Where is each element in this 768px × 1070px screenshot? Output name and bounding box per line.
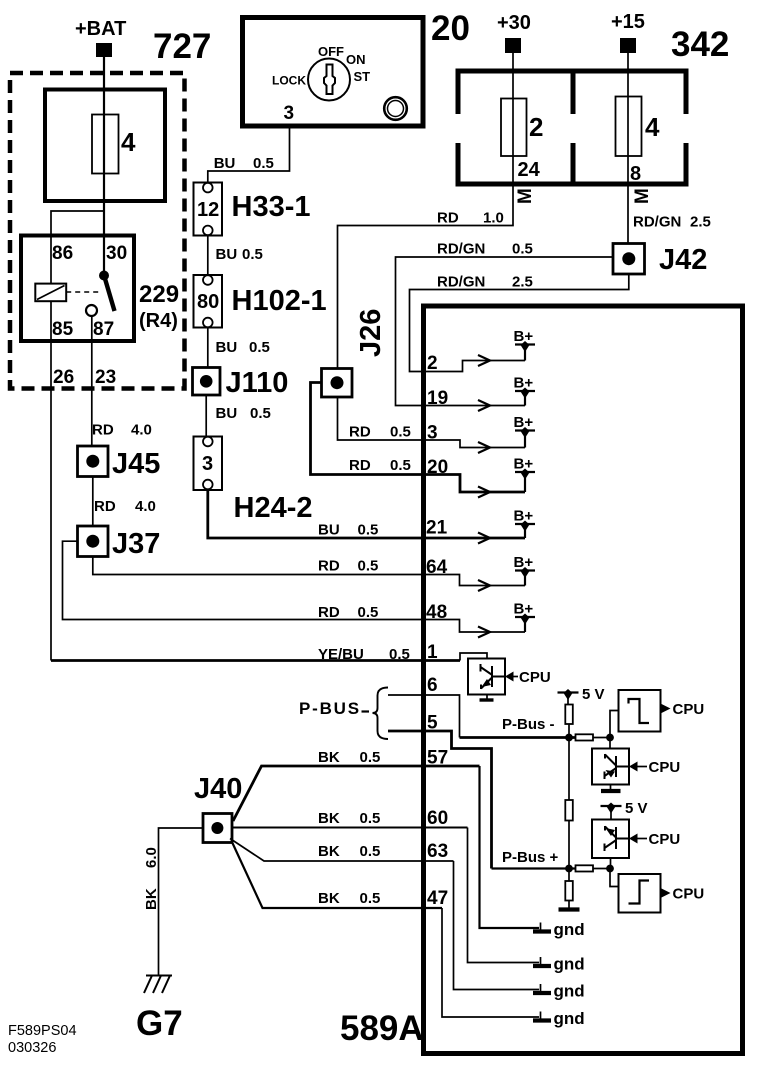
svg-text:B+: B+: [514, 375, 534, 392]
svg-text:J40: J40: [194, 773, 242, 805]
svg-text:CPU: CPU: [673, 886, 705, 903]
svg-text:57: 57: [427, 748, 448, 769]
wire relay 87 pin 23 down to J45: [91, 316, 93, 447]
gnd terminal 3: [533, 982, 585, 1001]
svg-text:B+: B+: [514, 328, 534, 345]
wire J40 to pin 57 (BK 0.5): [233, 766, 480, 821]
wire J45 to J37 (RD 4.0): [92, 477, 94, 528]
svg-text:ST: ST: [354, 69, 371, 84]
opto-isolator U1 symbol: [481, 664, 506, 689]
opto U4 CPU arrow: [629, 831, 680, 848]
opto-isolator U1 box: [468, 659, 505, 695]
svg-text:2.5: 2.5: [512, 274, 533, 291]
B+ terminal pin 21: [514, 508, 536, 539]
svg-text:0.5: 0.5: [360, 749, 381, 766]
svg-text:J42: J42: [659, 244, 707, 276]
opto-isolator U3 symbol: [605, 754, 630, 779]
svg-text:0.5: 0.5: [358, 604, 379, 621]
relay contact lever: [105, 277, 115, 311]
svg-text:RD: RD: [94, 498, 116, 515]
wire junction to schmitt U5: [610, 869, 619, 887]
svg-text:B+: B+: [514, 456, 534, 473]
splice J45 dot: [86, 455, 99, 468]
wire relay 26 to pin 1 (YE/BU 0.5): [51, 659, 460, 662]
svg-text:5 V: 5 V: [582, 686, 605, 703]
wire label BK 0.5 (pin 57): [318, 749, 380, 766]
B+ terminal pin 48: [514, 601, 536, 633]
svg-text:B+: B+: [514, 601, 534, 618]
pin 48 arrow: [478, 627, 490, 638]
svg-text:+BAT: +BAT: [75, 18, 126, 40]
wire pin 5 to P-Bus plus: [388, 731, 492, 869]
wire opto U4 to P-Bus plus junction: [610, 858, 612, 869]
ignition auxiliary ring: [384, 97, 407, 120]
wire label RD 0.5 (pin 64): [318, 558, 378, 575]
svg-text:0.5: 0.5: [358, 522, 379, 539]
svg-text:CPU: CPU: [649, 831, 681, 848]
svg-text:B+: B+: [514, 414, 534, 431]
svg-text:H24-2: H24-2: [234, 492, 313, 524]
gnd terminal 2: [533, 955, 585, 974]
svg-text:87: 87: [93, 319, 114, 340]
pin 19 arrow: [478, 400, 490, 411]
svg-text:RD: RD: [349, 424, 371, 441]
svg-text:+30: +30: [497, 12, 531, 34]
svg-text:RD: RD: [318, 604, 340, 621]
svg-text:030326: 030326: [8, 1040, 56, 1056]
svg-text:0.5: 0.5: [360, 810, 381, 827]
splice J42 box: [613, 244, 645, 275]
svg-text:0.5: 0.5: [253, 155, 274, 172]
svg-text:0.5: 0.5: [358, 558, 379, 575]
wire label BU 0.5: [216, 405, 271, 422]
svg-text:2: 2: [529, 112, 543, 142]
opto U3 CPU arrow: [629, 759, 680, 776]
wire J40 to ground G7 (BK 6.0): [159, 828, 204, 975]
resistor R4 (P-Bus termination lower): [576, 865, 594, 871]
wire P-Bus plus rail: [492, 867, 576, 869]
svg-text:1.0: 1.0: [483, 210, 504, 227]
wire R4 to junction right: [593, 868, 610, 870]
svg-text:23: 23: [95, 367, 116, 388]
B+ terminal pin 2: [514, 328, 536, 361]
svg-text:OFF: OFF: [318, 44, 344, 59]
svg-text:0.5: 0.5: [360, 843, 381, 860]
wire label BK 0.5 (pin 47): [318, 890, 380, 907]
svg-text:3: 3: [427, 423, 438, 444]
opto-isolator U4 symbol: [605, 826, 630, 851]
wire J42 to pin 19 (RD/GN 0.5): [396, 257, 614, 406]
svg-text:+15: +15: [611, 11, 645, 33]
ignition key cylinder: [308, 59, 350, 101]
splice J26 dot: [331, 376, 344, 389]
5V terminal (lower): [601, 800, 648, 820]
relay contact pivot: [99, 271, 109, 281]
wire +BAT to relay pin 30: [103, 57, 105, 271]
wire J40 to pin 47 (BK 0.5): [232, 842, 442, 908]
svg-text:5 V: 5 V: [625, 800, 648, 817]
junction P-Bus minus left: [565, 734, 573, 742]
svg-text:J37: J37: [112, 528, 160, 560]
wire label YE/BU 0.5: [318, 646, 410, 663]
junction P-Bus plus left: [565, 865, 573, 873]
svg-text:85: 85: [52, 319, 74, 340]
connector H33-1 top pin circle: [203, 183, 213, 193]
wire J42 to pin 2 (RD/GN 2.5): [410, 274, 629, 372]
svg-text:CPU: CPU: [519, 669, 551, 686]
svg-text:0.5: 0.5: [390, 424, 411, 441]
svg-text:0.5: 0.5: [242, 246, 263, 263]
svg-text:6.0: 6.0: [143, 847, 160, 868]
svg-text:gnd: gnd: [554, 982, 585, 1001]
fusebox 342 outline (dashed verticals): [456, 69, 689, 187]
connector H102-1 bottom pin circle: [203, 318, 213, 328]
svg-text:727: 727: [153, 27, 211, 66]
wire junction to opto U3: [609, 738, 611, 750]
pin 21 arrow: [478, 533, 490, 544]
svg-text:RD/GN: RD/GN: [437, 241, 485, 258]
gnd terminal 1: [533, 920, 585, 939]
P-BUS brace: [373, 688, 389, 740]
relay coil: [35, 284, 66, 302]
splice J37 dot: [86, 535, 99, 548]
wire label BU 0.5 (pin 21): [318, 522, 378, 539]
svg-text:229: 229: [139, 281, 179, 308]
svg-text:80: 80: [197, 291, 219, 313]
svg-text:J26: J26: [355, 309, 387, 357]
wire +30 through fuse 2 to RD 1.0: [338, 53, 514, 369]
pin 2 arrow: [478, 355, 490, 366]
svg-text:589A: 589A: [340, 1009, 424, 1048]
wire pin 1 to opto U1: [460, 653, 487, 661]
svg-text:H102-1: H102-1: [232, 285, 327, 317]
wire J37 to pin 48 (RD 0.5): [63, 541, 526, 632]
5V terminal (upper): [558, 686, 605, 705]
gnd terminal 4: [533, 1009, 585, 1028]
svg-text:0.5: 0.5: [389, 646, 410, 663]
svg-text:86: 86: [52, 243, 73, 264]
svg-text:48: 48: [426, 602, 447, 623]
wire J40 to pin 60 (BK 0.5): [232, 827, 468, 829]
svg-text:64: 64: [426, 557, 448, 578]
svg-text:20: 20: [427, 457, 448, 478]
opto-isolator U4 box: [592, 820, 629, 859]
wire label RD 4.0: [94, 498, 156, 515]
svg-text:CPU: CPU: [673, 701, 705, 718]
svg-text:RD/GN: RD/GN: [437, 274, 485, 291]
schmitt U2 CPU arrow: [661, 701, 705, 718]
connector H24-2 top pin circle: [203, 437, 213, 447]
connector H102-1 top pin circle: [203, 275, 213, 285]
wire H24-2 to pin 21 (BU 0.5): [208, 490, 525, 539]
splice J110 dot: [200, 375, 213, 388]
svg-text:gnd: gnd: [554, 920, 585, 939]
wire label BU 0.5: [216, 246, 263, 263]
svg-text:0.5: 0.5: [512, 241, 533, 258]
svg-text:gnd: gnd: [554, 955, 585, 974]
fuse holder box: [45, 90, 165, 202]
svg-text:P-BUS: P-BUS: [299, 699, 361, 718]
svg-text:LOCK: LOCK: [272, 74, 306, 88]
svg-text:gnd: gnd: [554, 1009, 585, 1028]
B+ terminal pin 19: [514, 375, 536, 406]
junction P-Bus plus right: [606, 865, 614, 873]
svg-text:24: 24: [518, 159, 541, 181]
wire label RD 0.5 (pin 3): [349, 424, 411, 441]
connector H33-1 box: [194, 183, 223, 236]
wire branch to relay pin 86: [51, 211, 104, 284]
resistor R3 (bus middle): [565, 800, 573, 821]
svg-text:CPU: CPU: [649, 759, 681, 776]
wire J26 to pin 3 (RD 0.5): [338, 397, 526, 448]
wire J40 to pin 63 (BK 0.5): [230, 839, 454, 862]
wire label RD 4.0 (23 to J45): [92, 422, 152, 439]
svg-text:30: 30: [106, 243, 127, 264]
wire label BK 6.0 (rotated): [143, 847, 160, 910]
svg-text:YE/BU: YE/BU: [318, 646, 364, 663]
wire J110 to H24-2: [205, 395, 207, 437]
splice J26 box: [322, 369, 353, 398]
connector H102-1 box: [194, 275, 223, 328]
svg-text:J45: J45: [112, 448, 160, 480]
svg-text:2.5: 2.5: [690, 214, 711, 231]
wire label RD/GN 0.5: [437, 241, 533, 258]
svg-text:P-Bus +: P-Bus +: [502, 849, 559, 866]
wire R3 to P-Bus plus junction: [568, 821, 570, 869]
resistor R2 (P-Bus termination upper): [576, 734, 594, 740]
svg-text:F589PS04: F589PS04: [8, 1023, 77, 1039]
svg-text:21: 21: [426, 518, 448, 539]
wire pin 60 to gnd: [468, 828, 540, 963]
svg-text:1: 1: [427, 642, 438, 663]
splice J37 box: [78, 526, 109, 557]
wire label BK 0.5 (pin 63): [318, 843, 380, 860]
svg-text:0.5: 0.5: [250, 405, 271, 422]
wire H102-1 to J110: [207, 328, 209, 369]
wire label RD 1.0: [437, 210, 504, 227]
svg-text:0.5: 0.5: [360, 890, 381, 907]
svg-text:4.0: 4.0: [131, 422, 152, 439]
opto U1 CPU arrow: [505, 669, 551, 686]
svg-text:20: 20: [431, 9, 470, 48]
wire J37 to pin 64 (RD 0.5): [93, 557, 525, 586]
ground under opto U3: [601, 785, 621, 792]
schmitt U5 rising-edge glyph: [629, 881, 650, 904]
svg-text:2: 2: [427, 353, 438, 374]
ground under opto U1: [480, 695, 494, 701]
svg-text:RD: RD: [349, 457, 371, 474]
wire label RD/GN 2.5 (fuse to J42): [633, 214, 711, 231]
schmitt U5 CPU arrow: [661, 886, 705, 903]
block 727 dashed boundary: [10, 73, 185, 389]
splice J42 dot: [622, 252, 635, 265]
svg-text:4: 4: [121, 127, 136, 157]
wire pin 47 to gnd: [442, 908, 539, 1017]
relay 229 (R4) box: [21, 236, 134, 342]
wire label BK 0.5 (pin 60): [318, 810, 380, 827]
resistor R5 (bus lower): [565, 881, 573, 901]
svg-text:BK: BK: [318, 749, 340, 766]
chassis ground G7 symbol: [144, 976, 172, 994]
connector H24-2 bottom pin circle: [203, 480, 213, 490]
svg-text:BU: BU: [216, 405, 238, 422]
opto-isolator U3 box: [592, 749, 629, 785]
svg-text:60: 60: [427, 808, 448, 829]
junction P-Bus minus right: [606, 734, 614, 742]
ignition key: [324, 65, 335, 95]
connector H24-2 box: [194, 437, 223, 491]
schmitt trigger U2 box: [619, 690, 661, 732]
P-BUS dash: [362, 710, 370, 712]
wire label RD 0.5 (pin 20): [349, 457, 411, 474]
resistor R1 (5V to P-Bus minus): [565, 705, 573, 725]
wire label RD 0.5 (pin 48): [318, 604, 378, 621]
svg-text:BK: BK: [318, 843, 340, 860]
svg-text:H33-1: H33-1: [232, 191, 311, 223]
svg-text:M: M: [632, 188, 653, 204]
splice J40 dot: [211, 822, 223, 834]
svg-text:G7: G7: [136, 1004, 183, 1043]
fuse 2 element: [501, 99, 527, 157]
B+ terminal pin 3: [514, 414, 536, 448]
pin 20 arrow: [478, 487, 490, 498]
wire R2 to junction right: [593, 737, 610, 739]
pin 3 arrow: [478, 442, 490, 453]
svg-text:J110: J110: [226, 367, 289, 399]
svg-text:47: 47: [427, 888, 448, 909]
B+ terminal pin 20: [514, 456, 536, 493]
ECU 589A box: [424, 306, 743, 1054]
svg-text:(R4): (R4): [139, 310, 178, 332]
wire label BU 0.5: [216, 339, 270, 356]
svg-text:4.0: 4.0: [135, 498, 156, 515]
wire relay 85 to pin 26 down to YE/BU row: [50, 301, 52, 660]
svg-text:BK: BK: [318, 890, 340, 907]
svg-text:3: 3: [202, 453, 213, 475]
fuse 4 element: [92, 115, 119, 174]
wire junction to schmitt U2: [610, 711, 619, 738]
splice J110 box: [193, 368, 221, 396]
wire +15 through fuse 4 to J42: [627, 53, 629, 244]
wire J26 to pin 20 (RD 0.5): [311, 383, 526, 493]
svg-text:342: 342: [671, 25, 729, 64]
wire label RD/GN 2.5: [437, 274, 533, 291]
wire P-Bus vertical between rails: [568, 738, 570, 801]
svg-text:RD: RD: [318, 558, 340, 575]
node +15 terminal square: [620, 38, 636, 53]
svg-text:BU: BU: [216, 246, 238, 263]
ground under R5: [559, 901, 580, 910]
splice J40 box: [203, 814, 232, 843]
svg-text:BU: BU: [216, 339, 238, 356]
svg-text:8: 8: [630, 163, 641, 185]
schmitt U2 falling-edge glyph: [629, 699, 650, 723]
wire P-Bus plus to ground resistor: [568, 869, 570, 882]
relay contact 87 circle: [86, 305, 97, 316]
pin 64 arrow: [478, 580, 490, 591]
B+ terminal pin 64: [514, 554, 536, 586]
wire ignition pin 3 to H33-1 (BU 0.5): [208, 126, 290, 183]
svg-text:ON: ON: [346, 52, 366, 67]
svg-text:BK: BK: [318, 810, 340, 827]
wire R1 to junction: [568, 724, 570, 738]
svg-text:63: 63: [427, 841, 448, 862]
fuse 4 element: [616, 97, 642, 157]
svg-text:RD: RD: [437, 210, 459, 227]
wire H33-1 to H102-1: [207, 235, 209, 275]
svg-text:RD: RD: [92, 422, 114, 439]
wire P-Bus minus rail: [460, 736, 576, 739]
schmitt trigger U5 box: [619, 874, 661, 913]
wire label BU 0.5: [214, 155, 274, 172]
svg-text:3: 3: [284, 103, 295, 124]
svg-text:4: 4: [645, 112, 660, 142]
svg-text:BK: BK: [143, 888, 160, 910]
svg-text:BU: BU: [318, 522, 340, 539]
svg-text:0.5: 0.5: [390, 457, 411, 474]
node +BAT terminal square: [96, 43, 112, 57]
svg-text:B+: B+: [514, 554, 534, 571]
svg-text:19: 19: [427, 388, 448, 409]
ignition switch 20 box: [243, 18, 424, 127]
connector H33-1 bottom pin circle: [203, 226, 213, 236]
svg-text:M: M: [515, 188, 536, 204]
wire pin 63 to gnd: [454, 861, 540, 990]
wire pin 6 to P-Bus minus: [388, 695, 460, 738]
svg-text:26: 26: [53, 367, 74, 388]
svg-text:P-Bus -: P-Bus -: [502, 716, 555, 733]
svg-text:12: 12: [197, 199, 219, 221]
svg-text:0.5: 0.5: [249, 339, 270, 356]
splice J45 box: [78, 446, 109, 477]
wire pin 57 to gnd: [480, 766, 540, 928]
svg-text:6: 6: [427, 675, 438, 696]
svg-text:BU: BU: [214, 155, 236, 172]
svg-text:RD/GN: RD/GN: [633, 214, 681, 231]
relay coil-contact dashed link: [66, 291, 99, 293]
svg-text:B+: B+: [514, 508, 534, 525]
node +30 terminal square: [505, 38, 521, 53]
